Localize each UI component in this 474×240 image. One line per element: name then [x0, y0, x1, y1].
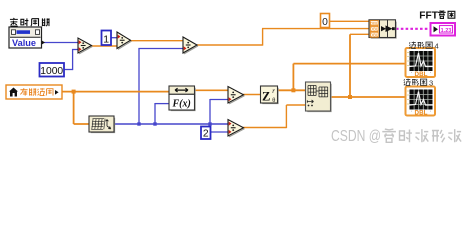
svg-text:CSDN @: CSDN @	[331, 128, 381, 145]
svg-text:1000: 1000	[40, 66, 63, 77]
svg-text:Value: Value	[12, 38, 36, 48]
svg-text:DBL: DBL	[370, 32, 379, 37]
svg-text:DBL: DBL	[415, 110, 428, 117]
svg-text:θ: θ	[272, 97, 275, 104]
svg-text:DBL: DBL	[415, 71, 428, 78]
svg-text:1.23: 1.23	[441, 28, 452, 34]
svg-text:DBL: DBL	[370, 21, 379, 26]
svg-text:FFT: FFT	[419, 11, 438, 22]
svg-text:0: 0	[322, 17, 328, 28]
svg-text:Z: Z	[262, 90, 270, 104]
svg-text:3: 3	[429, 78, 433, 87]
svg-text:DBL: DBL	[370, 27, 379, 32]
svg-text:2: 2	[203, 129, 209, 140]
svg-text:r: r	[272, 88, 275, 95]
svg-text:4: 4	[435, 41, 439, 50]
svg-text:1: 1	[103, 34, 109, 46]
svg-text:F(x): F(x)	[172, 98, 191, 109]
